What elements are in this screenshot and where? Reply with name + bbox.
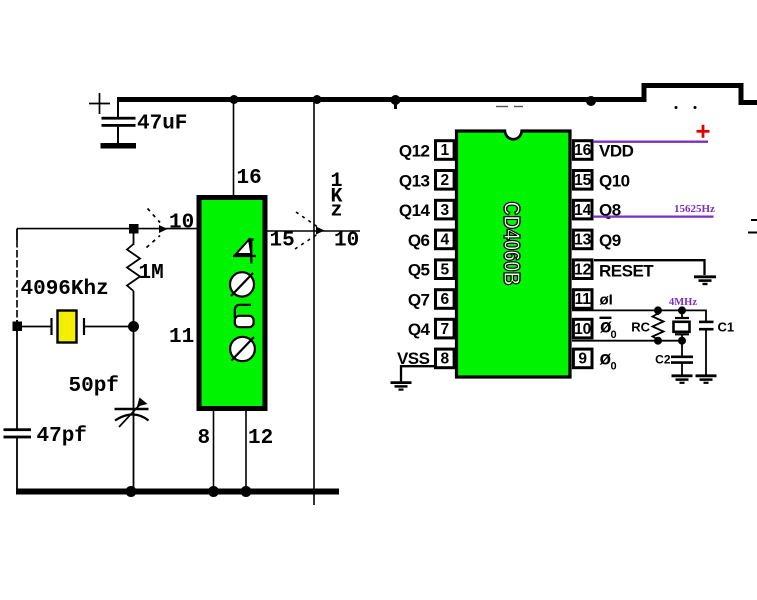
svg-text:50pf: 50pf [69,375,119,398]
svg-text:11: 11 [169,326,194,349]
pin 10 box [573,319,592,338]
wire rail to 47uF top plate [117,97,119,117]
wire 47pf to bottom rail [16,438,18,489]
IC U1 4060 body [199,198,265,409]
crystal X1 plates [50,318,52,335]
svg-text:10: 10 [169,212,194,235]
IC U1 label digit 6 [235,305,254,327]
ground bar of 47uF [101,143,137,149]
ground (C1) [696,376,717,383]
pin 14 box [573,200,592,219]
svg-text:4: 4 [440,232,449,249]
svg-text:Q9: Q9 [599,231,621,250]
ground (VSS) [391,383,412,390]
capacitor C2 [681,341,683,356]
wire VSS to ground [401,366,434,382]
node: rail junction above pin16 [230,95,239,104]
svg-text:47pf: 47pf [37,425,87,448]
trimmer capacitor 50pf arcs [115,408,149,410]
svg-text:RC: RC [631,320,650,335]
svg-text:4MHz: 4MHz [669,297,697,308]
wire VDD (purple) [593,141,708,143]
svg-text:11: 11 [575,291,592,308]
pin 16 box [573,141,592,160]
svg-text:12: 12 [248,427,273,450]
svg-text:1M: 1M [139,262,164,285]
svg-text:RESET: RESET [599,262,654,281]
left vertical wire [16,229,18,240]
pin 2 box [436,171,455,190]
trimmer arrow [119,405,140,428]
capacitor C1 [699,321,714,324]
wire 1Kz output vertical [313,102,315,505]
resistor RC [657,310,659,315]
svg-text:10: 10 [334,230,359,253]
ground (C2) [672,376,693,383]
svg-text:4096Khz: 4096Khz [21,278,109,301]
dashed arrow at pin15 crossing [295,212,317,249]
pin 3 box [436,200,455,219]
pin 7 box [436,319,455,338]
pin 11 box [573,290,592,309]
wire 47uF to ground bar [117,127,119,144]
svg-text:16: 16 [574,142,592,159]
power rail (top VCC bus) [118,86,757,103]
wire phi-I to C1 [572,310,706,321]
svg-text:3: 3 [440,202,449,219]
svg-text:C2: C2 [655,353,671,367]
svg-text:Q12: Q12 [399,142,430,161]
dashed arrow at pin10 [147,209,161,248]
svg-text:Q4: Q4 [408,320,431,339]
svg-text:8: 8 [198,427,211,450]
capacitor 47pf plates [4,428,32,431]
pin 12 box [573,260,592,279]
pin 13 box [573,230,592,249]
svg-text:CD4060B: CD4060B [499,202,525,286]
node: junction right of crystal [128,321,139,332]
svg-text:15: 15 [574,172,592,189]
svg-text:Q10: Q10 [599,171,630,190]
svg-text:12: 12 [574,261,591,278]
IC U2 CD4060B body [457,131,571,377]
pin 1 box [436,141,455,160]
svg-text:Q7: Q7 [408,291,430,310]
svg-text:2: 2 [440,172,449,189]
svg-text:9: 9 [578,351,587,368]
wire crystal node down to trimmer [133,327,135,490]
svg-text:z: z [330,200,342,223]
ground (RESET) [694,277,716,284]
capacitor 47uF [102,117,136,120]
svg-text:Q5: Q5 [408,261,430,280]
svg-text:1: 1 [440,142,449,159]
node: bottom rail junctions [126,486,137,497]
svg-text:C1: C1 [718,320,735,335]
svg-text:0: 0 [611,329,617,341]
polarity + mark of C 47uF [89,93,110,114]
node: junction square at 1M top [129,224,139,234]
svg-text:5: 5 [440,261,449,278]
svg-text:Q14: Q14 [399,201,431,220]
crystal X2 4MHz [681,310,683,318]
node: square junction left of crystal [13,322,23,332]
pin 6 box [436,290,455,309]
IC U1 label digit 4 [233,240,256,264]
node: rail junction right [586,96,596,106]
crystal X1 4096Khz wires [17,326,51,328]
svg-text:10: 10 [574,321,591,338]
wire RESET to ground [594,260,705,275]
decor faint dashes under rail [496,106,508,108]
node: junctions on oscillator wires [654,306,662,314]
pin 5 box [436,260,455,279]
pin 9 box [573,349,592,368]
wire Q8 output (purple) [593,215,714,217]
bottom rail (ground bus) [16,489,339,495]
crystal X1 body (yellow) [58,311,77,343]
pin 4 box [436,230,455,249]
svg-text:7: 7 [440,321,449,338]
svg-text:VDD: VDD [599,142,634,161]
svg-text:Q6: Q6 [408,231,430,250]
node: rail junction with stub [391,95,401,105]
pin 8 box [436,349,455,368]
resistor R1 1M [133,234,135,246]
svg-text:13: 13 [574,232,592,249]
wire pin8 to bottom rail [213,411,215,489]
+ supply mark (red) [697,125,710,138]
IC U2 notch [507,124,521,131]
pin 15 box [573,171,592,190]
svg-text:6: 6 [440,291,449,308]
wire phi-0-bar [572,340,682,342]
svg-text:0: 0 [611,361,617,373]
wire pin15 output [268,230,361,232]
decor specks under raised rail [675,106,678,109]
svg-text:16: 16 [237,167,262,190]
IC U1 label digit 0 (slashed, second) [230,337,255,361]
wire pin12 to bottom rail [245,411,247,489]
node: rail junction above 1Kz line [313,95,322,104]
svg-text:15: 15 [270,230,295,253]
svg-text:8: 8 [440,351,449,368]
wire pin16 to rail [233,102,235,196]
IC U1 label digit 0 (slashed) [230,272,254,296]
svg-text:15625Hz: 15625Hz [674,203,715,215]
svg-text:øI: øI [600,292,613,309]
svg-text:47uF: 47uF [137,113,187,136]
svg-text:14: 14 [574,202,592,219]
right edge capacitor marks [751,219,757,221]
wire pin10 input (left) [17,228,197,230]
svg-text:Q13: Q13 [399,171,430,190]
